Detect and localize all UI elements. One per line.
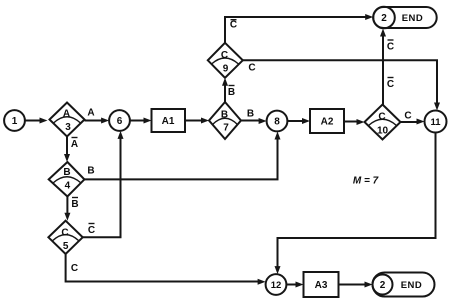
decision A 3 bbox=[50, 103, 85, 137]
svg-text:A2: A2 bbox=[321, 117, 334, 128]
svg-text:1: 1 bbox=[12, 116, 18, 127]
label Cbar upper bbox=[387, 40, 394, 53]
svg-text:C: C bbox=[71, 263, 78, 274]
wire Cbar from 9 up and right to END 2 top bbox=[225, 14, 373, 43]
decision B 7 bbox=[209, 102, 241, 139]
label Bbar bbox=[71, 198, 78, 211]
wire 1 to decision 3 bbox=[25, 118, 48, 124]
svg-text:A: A bbox=[87, 108, 94, 119]
node 8 bbox=[267, 111, 288, 132]
svg-text:END: END bbox=[401, 280, 423, 291]
svg-text:C: C bbox=[230, 20, 237, 31]
svg-text:C: C bbox=[248, 63, 255, 74]
svg-text:3: 3 bbox=[65, 122, 71, 133]
svg-text:M = 7: M = 7 bbox=[353, 176, 379, 187]
process A2 bbox=[310, 109, 344, 133]
label Cbar top bbox=[230, 20, 237, 31]
svg-text:C: C bbox=[387, 79, 394, 90]
label Cbar bbox=[88, 224, 95, 237]
svg-text:C: C bbox=[221, 50, 228, 61]
wire A1 to decision 7 bbox=[185, 118, 209, 124]
label Abar bbox=[71, 138, 78, 151]
svg-text:A3: A3 bbox=[315, 280, 328, 291]
svg-text:C: C bbox=[378, 112, 385, 123]
wire Bbar from 4 down to 5 bbox=[64, 197, 70, 221]
svg-text:5: 5 bbox=[63, 241, 69, 252]
wire C from 5 down and right to 12 bbox=[66, 254, 266, 285]
svg-text:12: 12 bbox=[271, 280, 282, 291]
svg-text:2: 2 bbox=[380, 280, 386, 291]
wire B from 4 right and up to 8 bbox=[84, 132, 280, 180]
label Bbar bbox=[228, 86, 235, 99]
svg-text:2: 2 bbox=[381, 13, 387, 24]
wire Abar from 3 down to 4 bbox=[64, 137, 70, 163]
decision B 4 bbox=[49, 162, 85, 197]
svg-text:A: A bbox=[71, 139, 78, 150]
node 12 bbox=[266, 274, 287, 295]
svg-text:9: 9 bbox=[223, 64, 229, 75]
wire A from 3 to 6 bbox=[85, 118, 110, 124]
svg-text:C: C bbox=[61, 227, 68, 238]
svg-text:8: 8 bbox=[274, 117, 280, 128]
decision C 9 bbox=[208, 43, 243, 78]
svg-text:END: END bbox=[402, 13, 424, 24]
wire 8 to A2 bbox=[287, 118, 310, 124]
wire A3 to END 2 bottom bbox=[339, 282, 373, 288]
decision C 5 bbox=[48, 221, 82, 254]
wire C from 10 to 11 bbox=[401, 119, 425, 125]
wire Cbar from 10 up to END 2 top bbox=[380, 29, 386, 105]
END terminal bottom bbox=[373, 273, 435, 297]
svg-text:A: A bbox=[63, 109, 70, 120]
decision C 10 bbox=[365, 105, 401, 140]
wire 12 to A3 bbox=[286, 282, 303, 288]
svg-text:B: B bbox=[63, 167, 70, 178]
svg-text:10: 10 bbox=[377, 126, 389, 137]
process A1 bbox=[152, 109, 186, 132]
process A3 bbox=[304, 272, 339, 297]
svg-text:B: B bbox=[247, 109, 254, 120]
END terminal top bbox=[373, 7, 437, 29]
wire B from 7 to 8 bbox=[241, 118, 267, 124]
svg-text:A1: A1 bbox=[162, 116, 175, 127]
svg-text:C: C bbox=[88, 225, 95, 236]
wire C from 9 right and down to 11 bbox=[243, 60, 440, 110]
node 1 bbox=[4, 110, 25, 131]
label Cbar lower bbox=[387, 78, 394, 91]
svg-text:C: C bbox=[387, 42, 394, 53]
node 11 bbox=[425, 111, 447, 133]
svg-text:11: 11 bbox=[430, 117, 441, 128]
svg-text:B: B bbox=[228, 87, 235, 98]
wire 6 to A1 bbox=[130, 118, 152, 124]
node 6 bbox=[109, 110, 130, 131]
svg-text:C: C bbox=[404, 111, 411, 122]
svg-text:B: B bbox=[221, 110, 228, 121]
svg-text:7: 7 bbox=[223, 123, 229, 134]
svg-text:B: B bbox=[71, 199, 78, 210]
wire A2 to decision 10 bbox=[344, 119, 365, 125]
wire Bbar from 7 up to 9 bbox=[222, 78, 228, 102]
svg-text:6: 6 bbox=[117, 116, 123, 127]
svg-text:B: B bbox=[87, 166, 94, 177]
svg-text:4: 4 bbox=[65, 181, 71, 192]
wire 11 down and left and down to 12 bbox=[275, 133, 436, 275]
wire Cbar from 5 right and up to 6 bbox=[83, 131, 124, 237]
